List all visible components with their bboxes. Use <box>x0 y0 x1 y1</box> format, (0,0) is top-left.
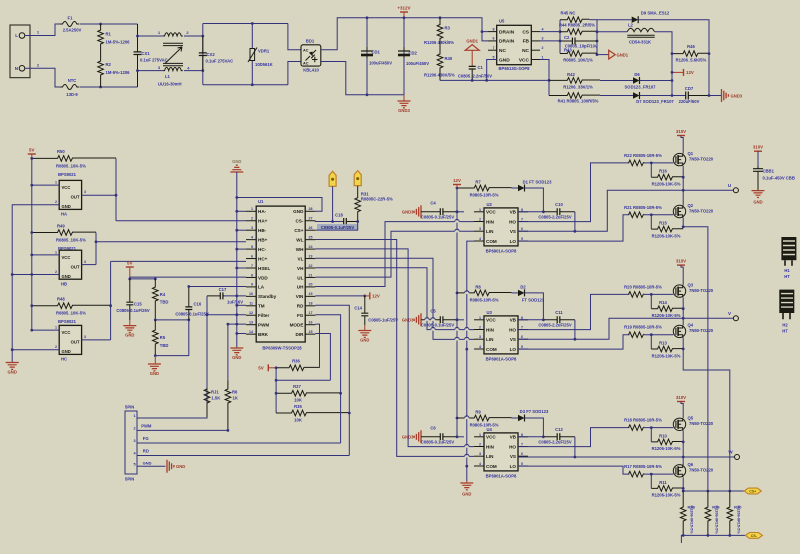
svg-text:DRAIN: DRAIN <box>499 29 515 35</box>
svg-text:3: 3 <box>84 190 86 194</box>
svg-text:GND: GND <box>8 370 17 375</box>
svg-text:VS: VS <box>510 337 516 342</box>
svg-text:WL: WL <box>296 237 303 242</box>
wire Q1 source to U line <box>682 166 684 190</box>
wire R49 to HB out and U1 HB+ <box>95 233 97 265</box>
svg-text:LO: LO <box>510 239 517 244</box>
wire to bridge AC1 <box>288 24 301 50</box>
svg-text:KBL410: KBL410 <box>303 68 319 73</box>
svg-text:DIR: DIR <box>295 332 304 337</box>
svg-text:BP6901A-SOP8: BP6901A-SOP8 <box>486 249 517 254</box>
svg-text:R18 R0805-10R-5%: R18 R0805-10R-5% <box>624 418 662 423</box>
svg-text:7N50-TO220: 7N50-TO220 <box>689 328 714 333</box>
resistor R7 <box>457 185 512 191</box>
svg-text:VS: VS <box>510 454 516 459</box>
svg-text:19: 19 <box>309 292 313 296</box>
wire second drain <box>482 32 488 41</box>
inductor L1 common-mode choke <box>163 33 183 36</box>
svg-text:23: 23 <box>309 254 313 258</box>
resistor R50 <box>32 156 116 162</box>
svg-text:VL: VL <box>298 256 304 261</box>
svg-text:HO: HO <box>509 219 516 224</box>
svg-text:NC: NC <box>522 48 529 54</box>
resistor R22 gate <box>629 160 644 166</box>
svg-text:R19 R0805-10R-5%: R19 R0805-10R-5% <box>624 325 662 330</box>
terminal U <box>733 188 738 193</box>
IC U2 BP6901A <box>484 208 518 246</box>
svg-text:VCC: VCC <box>486 210 496 215</box>
svg-text:C0805-0.1uF/25V: C0805-0.1uF/25V <box>421 322 454 327</box>
COM bus vertical <box>467 241 474 481</box>
svg-text:VH: VH <box>297 266 304 271</box>
svg-text:BD1: BD1 <box>306 39 315 44</box>
hall IC HA <box>59 180 81 209</box>
capacitor C1 <box>471 65 473 80</box>
wire HA VCC <box>32 184 59 186</box>
svg-text:Q6: Q6 <box>688 462 694 467</box>
svg-text:VB: VB <box>510 435 517 440</box>
wire 5PIN pin4 RD <box>143 455 349 457</box>
svg-text:HIN: HIN <box>486 219 495 224</box>
svg-text:C0805-2.2uF/25V: C0805-2.2uF/25V <box>538 214 571 219</box>
wire CS+ bus <box>683 490 744 492</box>
svg-text:2: 2 <box>479 326 481 330</box>
long wire R40 C1 U5-GND to R42 <box>440 79 549 81</box>
svg-text:7N50-TO220: 7N50-TO220 <box>689 421 714 426</box>
svg-text:HIN: HIN <box>486 444 495 449</box>
svg-text:1: 1 <box>542 55 544 59</box>
svg-text:5PIN: 5PIN <box>125 405 134 410</box>
wire top rail CX2 to VDR1 <box>203 23 288 25</box>
resistor R15 pulldown <box>650 215 652 229</box>
svg-text:7: 7 <box>521 326 523 330</box>
svg-text:COM: COM <box>486 347 497 352</box>
svg-text:R46: R46 <box>687 44 695 49</box>
svg-text:COM: COM <box>486 464 497 469</box>
wire WH pin24 to U4 HIN <box>315 249 474 447</box>
svg-text:CD7: CD7 <box>685 86 694 91</box>
svg-text:OUT: OUT <box>71 195 80 200</box>
svg-text:CS-: CS- <box>751 534 758 538</box>
svg-text:GND3: GND3 <box>402 317 414 322</box>
svg-text:27: 27 <box>309 217 313 221</box>
wire C17 left down to filter and RJ1 <box>206 296 208 417</box>
wire D9 cathode to CD7 right <box>638 20 709 96</box>
svg-text:GND3: GND3 <box>402 209 414 214</box>
ground GND hall bus <box>6 363 19 370</box>
svg-text:D1 FT SOD123: D1 FT SOD123 <box>523 180 553 185</box>
resistor R2 <box>98 52 104 87</box>
wire LO U2 to R21 <box>518 215 629 241</box>
svg-text:R7: R7 <box>475 180 481 185</box>
svg-text:GND: GND <box>62 204 71 209</box>
wire R4 bottom to C16 <box>155 319 189 321</box>
svg-text:5: 5 <box>251 245 253 249</box>
resistor R17 gate <box>629 471 644 477</box>
svg-text:1K: 1K <box>233 396 238 401</box>
svg-text:100uF/450V: 100uF/450V <box>406 61 429 66</box>
wire U5 CS to R44 R45 <box>540 31 560 33</box>
svg-text:GND: GND <box>232 159 241 164</box>
resistor R10 pulldown <box>650 428 652 442</box>
wire VS U2 to U node <box>518 190 733 231</box>
wire pin28 GND loop <box>237 198 322 212</box>
svg-text:2: 2 <box>251 217 253 221</box>
svg-text:R1206-10K-5%: R1206-10K-5% <box>652 446 681 451</box>
ground GND3 main <box>403 95 405 101</box>
resistor R1 <box>98 24 104 52</box>
svg-text:NTC: NTC <box>68 78 77 83</box>
wire top rail to R3 and U5 <box>404 18 488 32</box>
svg-text:R22 R0805-10R-5%: R22 R0805-10R-5% <box>624 153 662 158</box>
svg-text:GND: GND <box>499 57 510 63</box>
svg-text:C18: C18 <box>335 213 343 218</box>
svg-text:C2: C2 <box>564 35 570 40</box>
svg-text:UH: UH <box>297 285 304 290</box>
NTC thermistor <box>60 85 79 90</box>
svg-text:VCC: VCC <box>486 318 496 323</box>
wire 5PIN pin5 GND <box>143 465 166 467</box>
ground GND CBB1 <box>752 191 765 198</box>
svg-text:GND: GND <box>125 333 134 338</box>
svg-text:UU16-30mH: UU16-30mH <box>158 82 182 87</box>
svg-text:R50: R50 <box>57 149 65 154</box>
svg-text:1: 1 <box>479 433 481 437</box>
svg-text:COM: COM <box>486 239 497 244</box>
svg-text:2: 2 <box>479 218 481 222</box>
svg-text:L1: L1 <box>165 74 171 79</box>
transistor Q4 <box>673 325 685 337</box>
svg-text:CS+: CS+ <box>294 228 303 233</box>
svg-text:7N50-TO220: 7N50-TO220 <box>689 468 714 473</box>
svg-text:D9 SMA_ES12: D9 SMA_ES12 <box>641 11 670 16</box>
svg-text:R11: R11 <box>659 480 667 485</box>
svg-text:R0805_10K-5%: R0805_10K-5% <box>56 238 86 243</box>
wire Q6 drain from W line <box>682 457 684 465</box>
wire gate Q6 <box>644 473 673 475</box>
svg-text:R1206_5.6K/5%: R1206_5.6K/5% <box>676 58 707 63</box>
svg-text:GND: GND <box>232 355 241 360</box>
wire HC GND <box>12 349 59 351</box>
resistor R5 <box>153 320 159 356</box>
svg-text:310V: 310V <box>676 259 686 264</box>
wire PWM pin13 from R6 <box>228 323 246 325</box>
wire VS U3 to V node <box>518 318 733 339</box>
svg-text:5V: 5V <box>127 261 133 266</box>
svg-text:TBD: TBD <box>160 343 169 348</box>
svg-text:GND3: GND3 <box>731 94 743 99</box>
svg-text:FT SOD123: FT SOD123 <box>522 297 545 302</box>
svg-text:1: 1 <box>479 316 481 320</box>
power flag 12V VIN <box>369 292 371 299</box>
wire CS- line pin27 <box>315 220 342 223</box>
svg-text:14: 14 <box>249 330 253 334</box>
wire TM pin11 <box>237 304 246 306</box>
svg-text:1M-5%-1206: 1M-5%-1206 <box>106 70 131 75</box>
IC U1 BP6309W main controller <box>256 206 305 342</box>
svg-text:15: 15 <box>309 330 313 334</box>
wire HO U3 to R20 <box>518 294 629 329</box>
wire BRK pin14 <box>237 333 246 335</box>
svg-text:Q4: Q4 <box>688 323 694 328</box>
svg-text:13: 13 <box>249 321 253 325</box>
svg-text:7: 7 <box>493 46 495 50</box>
svg-text:V: V <box>728 311 731 316</box>
wire Q2 drain from U line <box>682 190 684 205</box>
ground GND C14 <box>364 325 366 331</box>
resistor R18 gate <box>629 425 644 431</box>
resistor R42 <box>549 78 600 84</box>
svg-text:R45 NC: R45 NC <box>561 11 576 16</box>
svg-text:U: U <box>728 183 731 188</box>
wire bridge plus to rail <box>321 18 404 50</box>
svg-text:R1206_33K/1%: R1206_33K/1% <box>563 85 593 90</box>
wire C10 to VS jog to U line <box>574 212 576 232</box>
svg-text:6: 6 <box>251 254 253 258</box>
wire CS- flag stem <box>332 186 334 221</box>
svg-text:R15: R15 <box>659 221 667 226</box>
svg-text:VCC: VCC <box>62 255 71 260</box>
resistor R31 <box>355 186 361 222</box>
resistor R9 <box>457 415 512 421</box>
svg-text:5: 5 <box>521 462 523 466</box>
ground GND R5 <box>154 356 156 364</box>
net flag CS- <box>745 533 762 539</box>
svg-text:7N50-TO220: 7N50-TO220 <box>689 156 714 161</box>
svg-text:R1206-10K-5%: R1206-10K-5% <box>652 313 681 318</box>
svg-text:R42: R42 <box>567 72 575 77</box>
inductor L2 <box>597 31 627 33</box>
svg-text:C4: C4 <box>430 200 436 205</box>
svg-text:R0805_10K/1%: R0805_10K/1% <box>563 58 593 63</box>
wire U5 GND down <box>487 60 497 81</box>
resistor R36 <box>276 365 319 371</box>
svg-text:8: 8 <box>493 27 495 31</box>
svg-text:LIN: LIN <box>486 454 494 459</box>
svg-text:R5: R5 <box>160 335 166 340</box>
5V bus vertical <box>31 158 33 330</box>
svg-text:Q3: Q3 <box>688 282 694 287</box>
svg-text:L2: L2 <box>628 23 634 28</box>
svg-text:R9: R9 <box>475 410 481 415</box>
svg-text:R3: R3 <box>445 26 451 31</box>
capacitor C5 <box>421 319 457 321</box>
svg-text:U4: U4 <box>487 427 493 432</box>
resistor R21 gate <box>629 212 644 218</box>
capacitor CX1 <box>137 24 139 87</box>
svg-text:2.5A250V: 2.5A250V <box>63 28 82 33</box>
svg-text:RD: RD <box>297 304 304 309</box>
svg-text:310V: 310V <box>753 145 763 150</box>
svg-text:8: 8 <box>521 316 523 320</box>
svg-text:BP6309W-TSSOP28: BP6309W-TSSOP28 <box>262 346 302 351</box>
capacitor C12 <box>543 436 575 438</box>
wire D3 to VB U4 <box>518 418 543 437</box>
diode D9 <box>597 19 632 21</box>
svg-text:7: 7 <box>521 218 523 222</box>
fuse F1 <box>60 22 79 27</box>
svg-text:R1206 430K/5%: R1206 430K/5% <box>424 73 455 78</box>
capacitor CD7 <box>686 95 709 97</box>
resistor R43 <box>560 51 597 57</box>
svg-text:10K: 10K <box>294 398 302 403</box>
wire HB OUT <box>82 264 96 266</box>
svg-text:GND: GND <box>176 464 185 469</box>
wire HO U4 to R18 <box>518 428 629 447</box>
svg-text:1: 1 <box>479 208 481 212</box>
wire hops at crossings <box>455 221 460 223</box>
svg-text:R4: R4 <box>160 292 166 297</box>
resistor R20 gate <box>629 292 644 298</box>
svg-text:R17 R0805-10R-5%: R17 R0805-10R-5% <box>624 464 662 469</box>
svg-text:GND: GND <box>62 274 71 279</box>
wire HA GND <box>12 205 59 363</box>
svg-text:D3 F7 SOD123: D3 F7 SOD123 <box>520 409 549 414</box>
svg-text:BP6901A-SOP8: BP6901A-SOP8 <box>486 474 517 479</box>
svg-text:C0805-0.1uF/25V: C0805-0.1uF/25V <box>321 225 354 230</box>
resistor R49 <box>32 230 96 236</box>
svg-text:R40: R40 <box>445 56 453 61</box>
heatsink H1 <box>781 237 796 260</box>
svg-text:0.1uF-450V CBB: 0.1uF-450V CBB <box>763 176 795 181</box>
wire filter pin12 <box>207 314 246 316</box>
svg-text:CS: CS <box>522 29 529 35</box>
wire L1 pin2 to CX2 <box>184 35 203 37</box>
wire LO U4 to R17 <box>518 466 629 474</box>
svg-text:13D-9: 13D-9 <box>66 92 78 97</box>
svg-text:12V: 12V <box>453 178 461 183</box>
net flag CS- vertical <box>329 171 336 186</box>
svg-text:8: 8 <box>521 208 523 212</box>
svg-text:C10: C10 <box>555 202 563 207</box>
net flag CS+ <box>744 488 761 494</box>
capacitor CD2 <box>403 18 405 95</box>
power flag GND1 right <box>597 54 609 56</box>
svg-text:LO: LO <box>510 347 517 352</box>
svg-text:R1206-0R15-5%: R1206-0R15-5% <box>736 506 740 535</box>
ground GND U1 left bus <box>230 348 243 355</box>
svg-text:4: 4 <box>542 27 544 31</box>
svg-text:R48: R48 <box>57 297 65 302</box>
svg-text:R16: R16 <box>659 169 667 174</box>
svg-text:HT: HT <box>782 329 788 334</box>
svg-text:TBD: TBD <box>160 300 169 305</box>
wire gate Q4 <box>644 334 673 336</box>
resistor R4 <box>153 279 159 320</box>
svg-text:VCC: VCC <box>62 330 71 335</box>
resistor R3 <box>437 18 443 45</box>
svg-text:0.1uF 275VAC: 0.1uF 275VAC <box>206 59 234 64</box>
svg-text:8: 8 <box>521 433 523 437</box>
svg-text:7: 7 <box>521 443 523 447</box>
hall IC HC <box>59 325 81 354</box>
wire VL pin23 to U3 LIN <box>315 258 474 339</box>
diode D3 <box>518 415 525 421</box>
wire NTC to bottom rail <box>80 86 138 88</box>
wire LO U3 to R19 <box>518 335 629 349</box>
svg-text:HB-: HB- <box>258 228 267 233</box>
svg-text:C14: C14 <box>354 306 362 311</box>
svg-text:HC-: HC- <box>258 247 267 252</box>
svg-text:9: 9 <box>251 283 253 287</box>
svg-text:7N50-TO220: 7N50-TO220 <box>689 208 714 213</box>
svg-text:R0805-10R-5%: R0805-10R-5% <box>470 297 499 302</box>
svg-text:GND: GND <box>143 460 152 465</box>
svg-text:Standby: Standby <box>258 294 277 299</box>
svg-text:R1206-10K-5%: R1206-10K-5% <box>652 233 681 238</box>
svg-text:R2: R2 <box>106 62 112 67</box>
wire to bridge AC2 <box>288 62 301 85</box>
svg-text:HA: HA <box>61 212 67 217</box>
wire D2 to VB U3 <box>518 293 543 320</box>
svg-text:AC: AC <box>303 49 309 53</box>
resistor R48 <box>32 303 111 309</box>
transistor Q5 <box>673 418 685 430</box>
svg-text:5: 5 <box>521 345 523 349</box>
svg-text:1: 1 <box>55 326 57 330</box>
wire CX1 to L1 pin3 <box>138 70 164 72</box>
svg-text:R10: R10 <box>659 433 667 438</box>
svg-text:Q2: Q2 <box>688 203 694 208</box>
svg-text:16: 16 <box>309 321 313 325</box>
svg-text:2: 2 <box>55 270 57 274</box>
svg-text:SOD123_FR107: SOD123_FR107 <box>625 85 657 90</box>
resistor R35 <box>276 410 349 416</box>
svg-text:2: 2 <box>55 200 57 204</box>
svg-text:R35: R35 <box>294 404 302 409</box>
diode D1 <box>518 185 525 191</box>
wire Q2 source to shunt R29 <box>683 218 708 491</box>
svg-text:VCC: VCC <box>486 435 496 440</box>
svg-text:R8: R8 <box>475 284 481 289</box>
wire gate Q2 <box>644 214 673 216</box>
svg-text:R0805_10K-5%: R0805_10K-5% <box>56 311 86 316</box>
svg-text:GND: GND <box>753 200 762 205</box>
svg-text:HC: HC <box>61 357 67 362</box>
svg-text:R44 R0805_2R/5%: R44 R0805_2R/5% <box>559 23 595 28</box>
svg-text:CD1: CD1 <box>372 50 381 55</box>
wire HC OUT <box>82 339 111 341</box>
svg-text:R1206-10K-5%: R1206-10K-5% <box>652 353 681 358</box>
wire CX2 loop left vertical <box>202 24 204 85</box>
svg-text:FB: FB <box>523 39 530 45</box>
wire C16 to LA <box>189 286 246 288</box>
svg-text:20: 20 <box>309 283 313 287</box>
svg-text:BP6901A-SOP8: BP6901A-SOP8 <box>486 357 517 362</box>
IC U4 BP6901A <box>484 433 518 471</box>
svg-text:5PIN: 5PIN <box>125 477 134 482</box>
svg-text:BP6513G-SOP8: BP6513G-SOP8 <box>499 66 531 71</box>
svg-text:CS-: CS- <box>295 219 303 224</box>
wire U5 FB <box>540 40 560 42</box>
resistor R27 <box>276 391 341 397</box>
svg-text:4: 4 <box>251 235 253 239</box>
transistor Q3 <box>673 285 685 297</box>
svg-text:R0805C-22R-5%: R0805C-22R-5% <box>361 197 393 202</box>
heatsink H2 <box>779 290 794 313</box>
svg-text:FG: FG <box>143 436 149 441</box>
wire Q5 source to W line <box>682 431 684 458</box>
wire HO U2 to R22 <box>518 163 629 222</box>
svg-text:3: 3 <box>542 37 544 41</box>
svg-text:R0805-10R-5%: R0805-10R-5% <box>470 193 499 198</box>
svg-text:C11: C11 <box>555 310 563 315</box>
svg-text:C0805-2.2uF/25V: C0805-2.2uF/25V <box>538 439 571 444</box>
transistor Q6 <box>673 465 685 477</box>
svg-text:R13: R13 <box>659 340 667 345</box>
svg-text:GND1: GND1 <box>466 39 478 44</box>
svg-text:F1: F1 <box>68 16 74 21</box>
